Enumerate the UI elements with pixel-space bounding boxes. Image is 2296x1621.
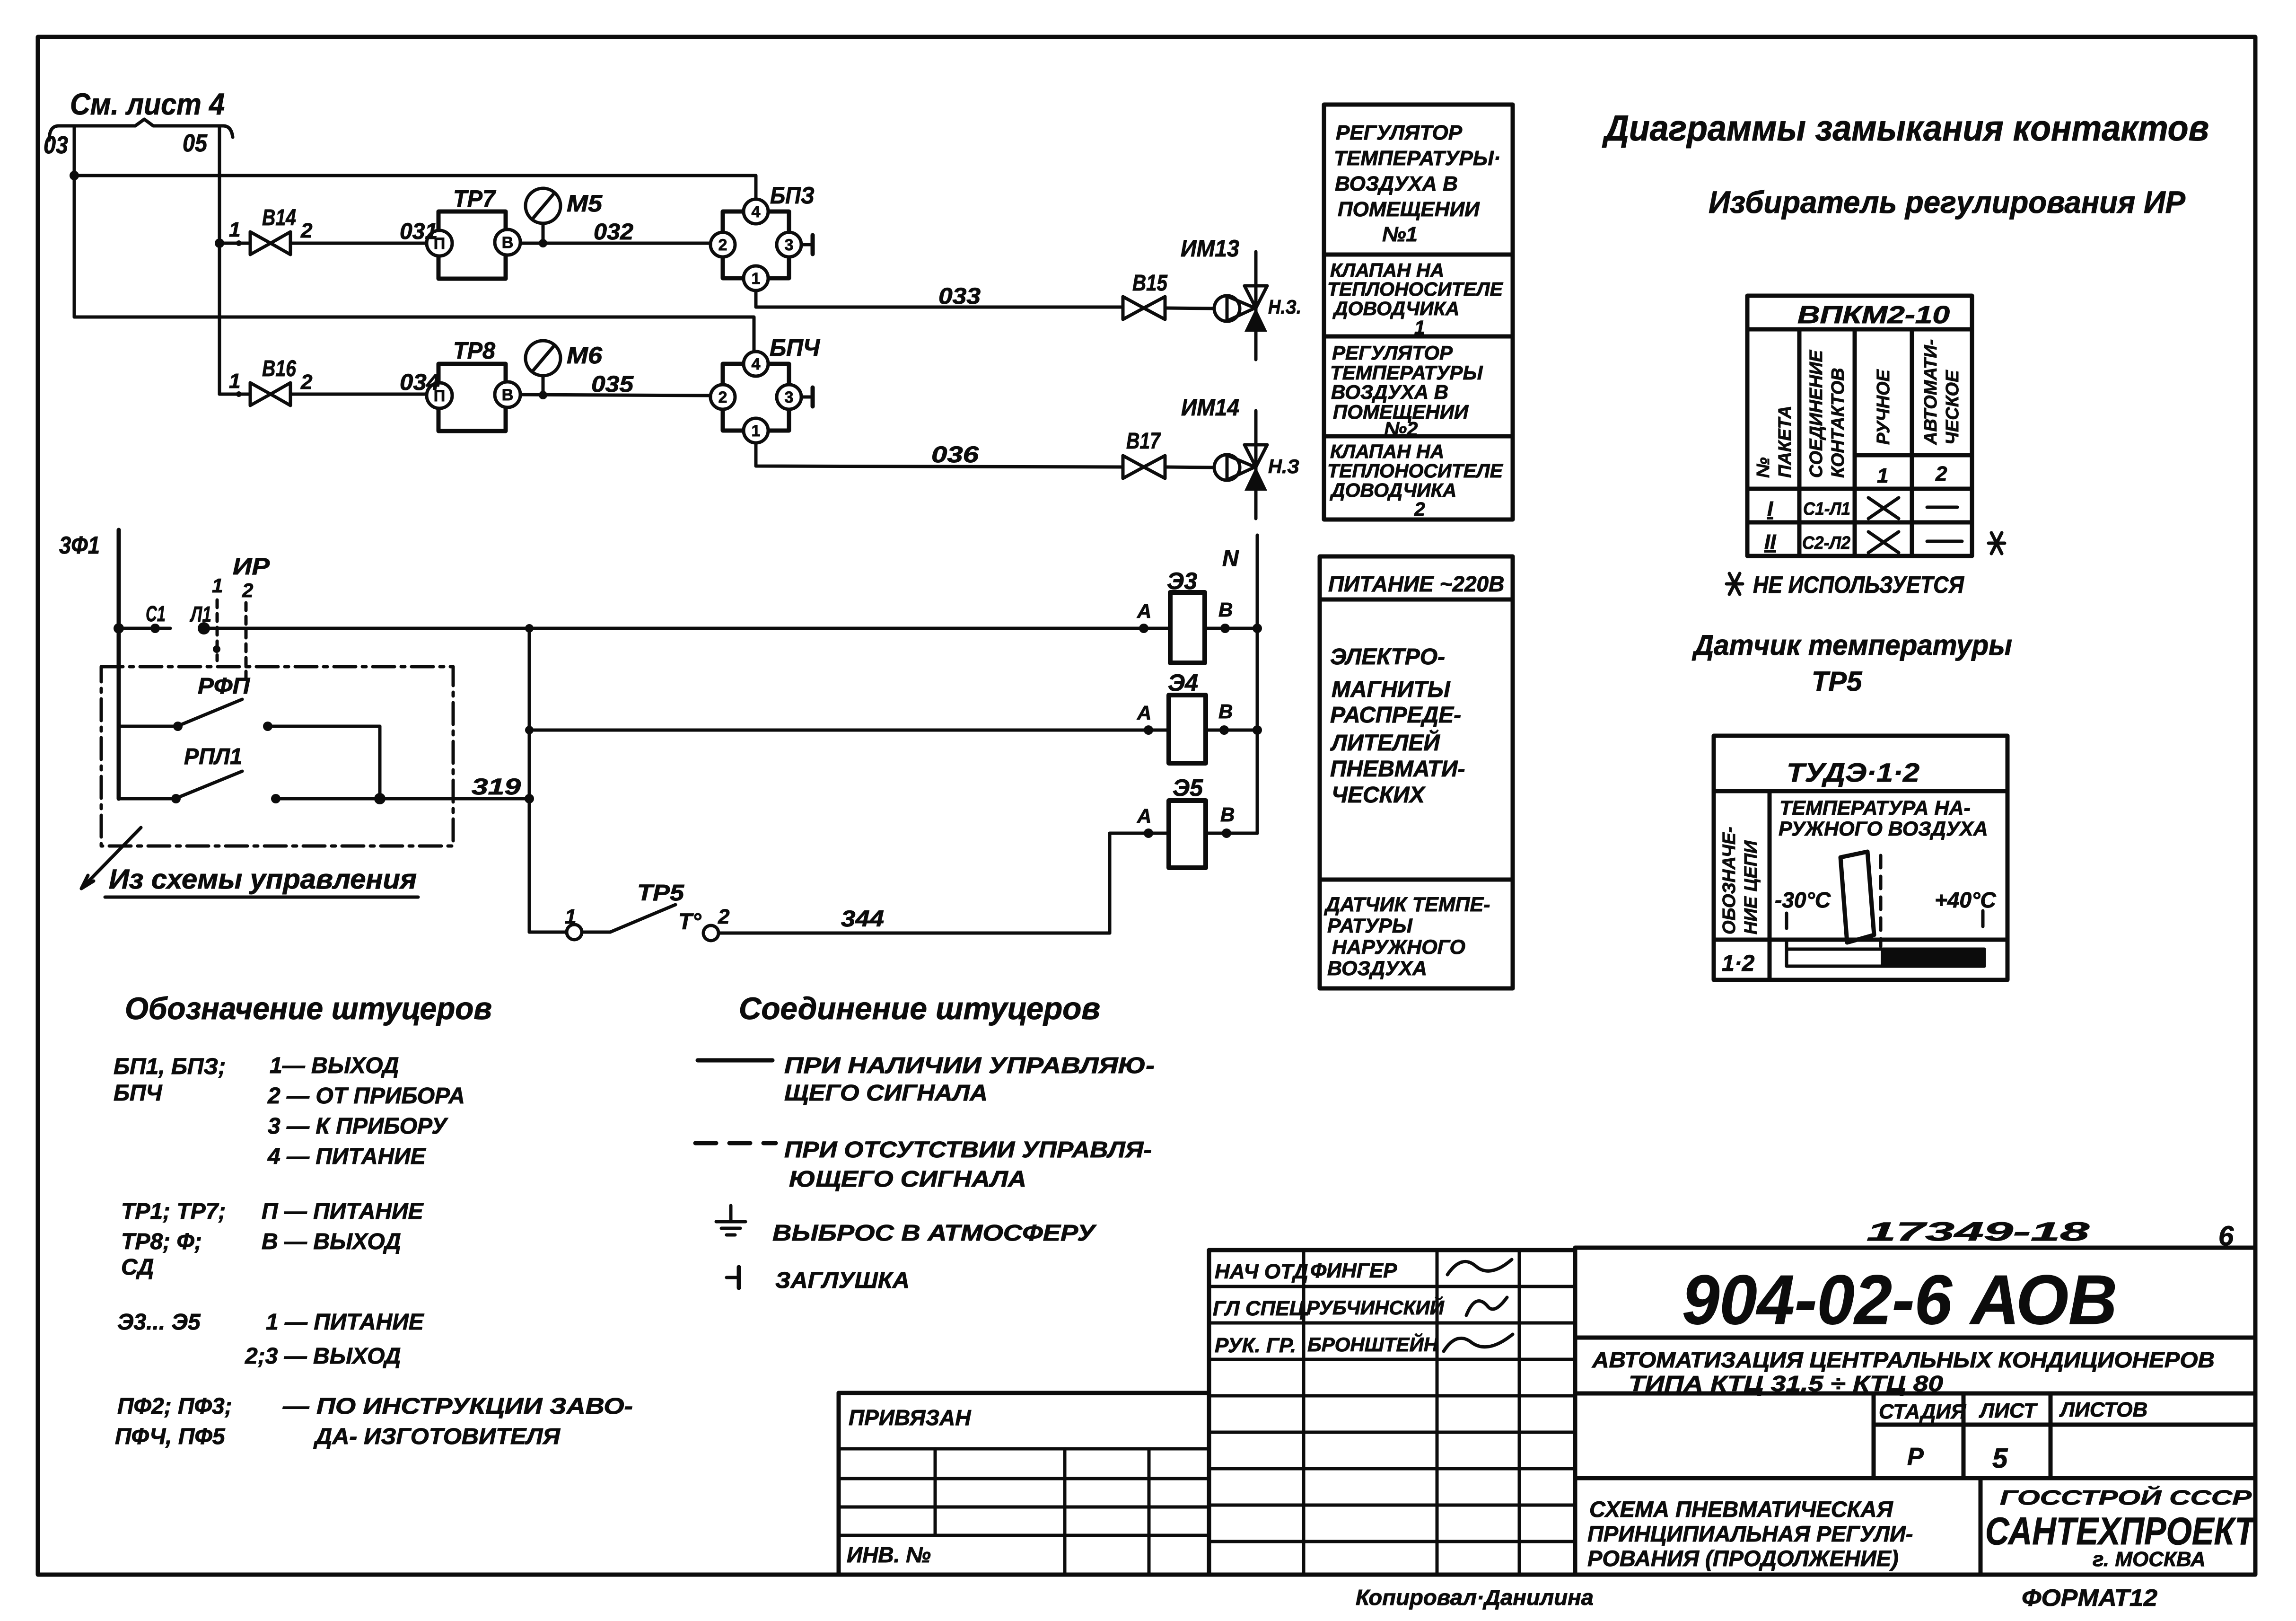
svg-text:ТР8; Ф;: ТР8; Ф; [121, 1229, 202, 1254]
svg-text:МАГНИТЫ: МАГНИТЫ [1332, 677, 1451, 702]
signature rows [1209, 1285, 1575, 1288]
svg-text:РУБЧИНСКИЙ: РУБЧИНСКИЙ [1306, 1295, 1445, 1319]
wire РФП branch down [378, 726, 382, 799]
svg-text:С1: С1 [146, 601, 166, 626]
symbol solid line [698, 1058, 772, 1063]
svg-text:Н.З.: Н.З. [1268, 296, 1301, 318]
BP3 port 2 [710, 232, 735, 257]
terminal A of Э3 [1139, 624, 1148, 633]
svg-text:Избиратель регулирования ИР: Избиратель регулирования ИР [1709, 185, 2186, 220]
svg-text:2: 2 [242, 579, 253, 601]
range bar filled segment [1881, 948, 1984, 968]
svg-text:ПНЕВМАТИ-: ПНЕВМАТИ- [1330, 757, 1465, 782]
terminal A of Э5 [1144, 828, 1153, 838]
leader arrow to box [81, 828, 141, 889]
svg-text:ОБОЗНАЧЕ-: ОБОЗНАЧЕ- [1719, 827, 1739, 934]
wire TP8 to 035 [520, 395, 710, 396]
svg-text:Диаграммы замыкания контакто: Диаграммы замыкания контактов [1602, 108, 2209, 149]
port П of TP7 [427, 230, 452, 256]
gauge M5 [542, 223, 545, 243]
org box [1979, 1478, 1983, 1574]
node junction N/Э4 [1253, 725, 1262, 735]
svg-text:ВПКМ2-10: ВПКМ2-10 [1797, 301, 1950, 329]
svg-text:2: 2 [719, 388, 727, 406]
svg-text:1: 1 [229, 370, 240, 393]
svg-text:А: А [1137, 805, 1151, 827]
port П of TP8 [427, 383, 452, 408]
svg-text:904-02-6 АОВ: 904-02-6 АОВ [1682, 1261, 2117, 1339]
svg-text:В: В [502, 386, 514, 404]
svg-text:ПИТАНИЕ ~220В: ПИТАНИЕ ~220В [1328, 572, 1504, 596]
svg-text:2: 2 [1935, 462, 1947, 485]
wire to ТР5 contact [529, 931, 567, 934]
valve B17 [1123, 456, 1165, 478]
svg-text:319: 319 [472, 775, 521, 800]
svg-text:ИР: ИР [233, 553, 270, 580]
node junction 03 [70, 171, 79, 180]
svg-text:РАТУРЫ: РАТУРЫ [1327, 915, 1413, 937]
row II [1747, 520, 1972, 525]
column lines [1797, 329, 1802, 556]
svg-text:1: 1 [752, 270, 761, 288]
svg-text:ТУДЭ·1·2: ТУДЭ·1·2 [1787, 758, 1919, 787]
symbol dashed line [695, 1141, 776, 1145]
wire 05 to valve B16 [219, 393, 250, 396]
description table upper [1324, 105, 1513, 520]
svg-text:2: 2 [300, 219, 313, 242]
contact C1 dot [150, 624, 160, 633]
svg-text:ИМ14: ИМ14 [1181, 394, 1239, 421]
svg-text:№1: №1 [1382, 223, 1418, 246]
description table lower [1320, 556, 1513, 988]
selector ИР line 1 (dashed) [216, 600, 219, 661]
svg-text:ДА- ИЗГОТОВИТЕЛЯ: ДА- ИЗГОТОВИТЕЛЯ [313, 1424, 561, 1449]
svg-text:СХЕМА ПНЕВМАТИЧЕСКАЯ: СХЕМА ПНЕВМАТИЧЕСКАЯ [1589, 1497, 1893, 1522]
3-way valve IM13 [1254, 252, 1258, 360]
svg-text:БРОНШТЕЙН: БРОНШТЕЙН [1307, 1332, 1439, 1356]
sub row 1 / 2 [1855, 453, 1972, 458]
wire to contact C1 [119, 627, 170, 630]
svg-text:3 — К ПРИБОРУ: 3 — К ПРИБОРУ [268, 1114, 448, 1139]
svg-text:2 — ОТ ПРИБОРА: 2 — ОТ ПРИБОРА [267, 1084, 465, 1109]
svg-text:РФП: РФП [198, 674, 251, 699]
regulator TP7 box [438, 211, 506, 279]
diaphragm parallelogram [1840, 852, 1874, 943]
svg-text:ДОВОДЧИКА: ДОВОДЧИКА [1330, 479, 1456, 501]
svg-text:КЛАПАН НА: КЛАПАН НА [1330, 440, 1444, 462]
svg-text:-30°С: -30°С [1775, 888, 1831, 912]
svg-text:СД: СД [121, 1255, 154, 1280]
node junction bus/Э4 wire [525, 726, 534, 734]
svg-text:А: А [1137, 600, 1151, 622]
svg-text:ТР5: ТР5 [637, 881, 684, 906]
svg-text:I: I [1767, 497, 1773, 520]
svg-text:ВОЗДУХА В: ВОЗДУХА В [1331, 381, 1448, 403]
wire 344 riser to Э5 [1110, 833, 1135, 933]
svg-text:БПЧ: БПЧ [114, 1081, 163, 1106]
svg-text:ПРИНЦИПИАЛЬНАЯ РЕГУЛИ-: ПРИНЦИПИАЛЬНАЯ РЕГУЛИ- [1587, 1521, 1913, 1546]
svg-text:М6: М6 [567, 342, 603, 369]
svg-text:РУК. ГР.: РУК. ГР. [1215, 1334, 1296, 1357]
svg-text:В15: В15 [1132, 271, 1168, 296]
svg-text:ТЕПЛОНОСИТЕЛЕ: ТЕПЛОНОСИТЕЛЕ [1327, 460, 1504, 482]
svg-text:4: 4 [752, 203, 761, 221]
svg-text:РЕГУЛЯТОР: РЕГУЛЯТОР [1332, 342, 1453, 364]
svg-text:ФИНГЕР: ФИНГЕР [1310, 1259, 1397, 1282]
contact Л1 dot [198, 622, 210, 634]
svg-text:1: 1 [565, 905, 576, 928]
node junction N/Э3 [1253, 624, 1262, 633]
svg-text:3: 3 [785, 236, 794, 254]
svg-text:ПФ2; ПФ3;: ПФ2; ПФ3; [117, 1394, 232, 1419]
wire to IM14 [1165, 467, 1215, 467]
relay block BP4 [723, 364, 789, 431]
symbol vent to atmosphere (ground) [729, 1206, 733, 1222]
svg-text:ТР5: ТР5 [1812, 666, 1862, 697]
svg-text:СТАДИЯ: СТАДИЯ [1879, 1400, 1966, 1423]
electromagnet Э3 [1170, 592, 1205, 663]
svg-text:В: В [1218, 599, 1233, 621]
svg-text:Обозначение штуцеров: Обозначение штуцеров [125, 991, 492, 1026]
svg-text:3Ф1: 3Ф1 [59, 532, 100, 559]
svg-text:Э3... Э5: Э3... Э5 [117, 1310, 201, 1335]
terminal A of Э4 [1144, 725, 1153, 735]
svg-text:ФОРМАТ12: ФОРМАТ12 [2022, 1585, 2157, 1611]
svg-text:4: 4 [752, 355, 761, 373]
BP4 port 3 [777, 385, 801, 409]
svg-text:ВОЗДУХА В: ВОЗДУХА В [1335, 172, 1458, 195]
svg-text:БПЗ: БПЗ [770, 182, 815, 209]
port В of TP7 [495, 229, 520, 255]
symbol plug [727, 1276, 739, 1279]
svg-text:РОВАНИЯ (ПРОДОЛЖЕНИЕ): РОВАНИЯ (ПРОДОЛЖЕНИЕ) [1587, 1546, 1899, 1571]
svg-text:ТЕМПЕРАТУРЫ·: ТЕМПЕРАТУРЫ· [1334, 147, 1500, 170]
svg-text:+40°С: +40°С [1935, 888, 1996, 912]
row line [1714, 938, 2007, 942]
svg-text:ИНВ. №: ИНВ. № [847, 1542, 931, 1567]
stamp outer lines [1209, 1248, 1575, 1252]
svg-text:НИЕ ЦЕПИ: НИЕ ЦЕПИ [1741, 840, 1761, 934]
plug at BP4 port3 [801, 396, 813, 399]
svg-text:ТЕМПЕРАТУРЫ: ТЕМПЕРАТУРЫ [1330, 361, 1483, 384]
asterisk mark [1989, 533, 2005, 554]
terminal B of Э3 [1205, 627, 1257, 630]
svg-text:ЧЕСКОЕ: ЧЕСКОЕ [1943, 370, 1963, 445]
port dot 1 of B14 [236, 240, 242, 246]
selector table ВПКМ2-10 [1747, 296, 1972, 556]
SECTION: selector and relay contacts [59, 530, 1170, 941]
svg-text:1— ВЫХОД: 1— ВЫХОД [270, 1053, 399, 1078]
svg-text:САНТЕХПРОЕКТ: САНТЕХПРОЕКТ [1985, 1510, 2257, 1553]
svg-text:ПРИВЯЗАН: ПРИВЯЗАН [849, 1405, 971, 1430]
svg-text:ТЕПЛОНОСИТЕЛЕ: ТЕПЛОНОСИТЕЛЕ [1327, 278, 1504, 300]
svg-text:ПАКЕТА: ПАКЕТА [1775, 405, 1795, 478]
dashed centre line [1879, 855, 1883, 946]
plug at BP3 port3 [801, 243, 813, 247]
svg-text:Копировал·Данилина: Копировал·Данилина [1356, 1585, 1594, 1610]
sensor table ТУДЭ-1-2 [1714, 736, 2007, 980]
привязан box [839, 1391, 1209, 1395]
wire 033 from BP3 port1 [756, 291, 1123, 307]
svg-text:ТР7: ТР7 [453, 185, 496, 212]
electromagnet Э4 [1169, 695, 1206, 763]
ТР5 terminal 1 [567, 925, 582, 940]
svg-text:В — ВЫХОД: В — ВЫХОД [262, 1229, 401, 1254]
svg-text:РАСПРЕДЕ-: РАСПРЕДЕ- [1330, 703, 1461, 728]
svg-text:2;3 — ВЫХОД: 2;3 — ВЫХОД [245, 1344, 401, 1369]
wire 05 to valve B14 [219, 242, 250, 245]
BP4 port 2 [710, 385, 735, 409]
svg-text:ДОВОДЧИКА: ДОВОДЧИКА [1332, 298, 1459, 319]
valve B14 [250, 232, 290, 255]
svg-text:ЮЩЕГО СИГНАЛА: ЮЩЕГО СИГНАЛА [789, 1167, 1026, 1192]
svg-text:ТЕМПЕРАТУРА НА-: ТЕМПЕРАТУРА НА- [1779, 797, 1971, 819]
SECTION: description tables [1320, 105, 1513, 988]
valve B15 [1123, 297, 1165, 319]
svg-text:Э3: Э3 [1167, 568, 1197, 594]
svg-text:2: 2 [300, 370, 313, 394]
svg-text:ТР1; ТР7;: ТР1; ТР7; [121, 1199, 226, 1224]
svg-text:ЧЕСКИХ: ЧЕСКИХ [1332, 783, 1426, 808]
svg-text:033: 033 [938, 284, 981, 309]
svg-text:Э4: Э4 [1168, 670, 1198, 696]
SECTION: legends [114, 991, 1155, 1449]
svg-text:А: А [1137, 702, 1151, 724]
svg-text:ВОЗДУХА: ВОЗДУХА [1327, 957, 1427, 980]
svg-text:АВТОМАТИ-: АВТОМАТИ- [1921, 339, 1941, 445]
actuator IM13 [1214, 296, 1240, 321]
wire A stub [1135, 832, 1169, 835]
terminal B of Э5 [1206, 832, 1257, 835]
range bar outline [1787, 949, 1984, 966]
wire vertical left bus [117, 530, 121, 799]
svg-text:2: 2 [1414, 498, 1425, 520]
ТР5 switch blade [582, 931, 610, 934]
svg-text:17349-18: 17349-18 [1867, 1216, 2090, 1246]
svg-text:НАРУЖНОГО: НАРУЖНОГО [1332, 936, 1465, 959]
BP4 port 1 [744, 418, 768, 443]
regulator TP8 box [438, 364, 506, 431]
svg-text:ЗАГЛУШКА: ЗАГЛУШКА [775, 1268, 910, 1293]
svg-text:В14: В14 [262, 205, 296, 230]
contact РПЛ1 row [119, 797, 176, 801]
port dot 1 of B16 [236, 391, 242, 397]
svg-text:1·2: 1·2 [1722, 951, 1755, 976]
svg-text:В17: В17 [1126, 429, 1161, 454]
wire 03 feed to BP4 port4 [74, 317, 754, 352]
svg-text:БПЧ: БПЧ [770, 335, 821, 361]
svg-text:Т°: Т° [678, 909, 701, 934]
wire 03 feed to BP3 port4 [74, 176, 756, 199]
svg-text:ЛИСТ: ЛИСТ [1979, 1399, 2038, 1422]
SECTION: title block [839, 1216, 2257, 1611]
svg-text:— ПО ИНСТРУКЦИИ ЗАВО-: — ПО ИНСТРУКЦИИ ЗАВО- [282, 1394, 633, 1419]
relay block BP3 [723, 211, 789, 278]
port В of TP8 [495, 382, 520, 407]
wire Л1 to Э3 [204, 627, 1170, 630]
BP3 port 3 [777, 232, 801, 257]
svg-text:ПРИ ОТСУТСТВИИ УПРАВЛЯ-: ПРИ ОТСУТСТВИИ УПРАВЛЯ- [784, 1137, 1152, 1163]
3-way valve IM14 [1254, 411, 1258, 519]
svg-text:3: 3 [785, 388, 794, 406]
wire 031 [290, 242, 427, 245]
svg-text:ПОМЕЩЕНИИ: ПОМЕЩЕНИИ [1338, 198, 1480, 221]
wire 319 [276, 797, 529, 801]
ТР5 terminal 2 [703, 925, 719, 941]
svg-text:Л1: Л1 [190, 602, 211, 626]
svg-text:2: 2 [718, 905, 730, 928]
SECTION: row2 pneumatic chain [219, 335, 1299, 519]
gauge M6 [542, 376, 545, 395]
wire TP7 to 032 [520, 242, 710, 245]
SECTION: TUDE table [1714, 736, 2007, 980]
wire net 05 vertical [218, 126, 221, 394]
valve B16 [250, 383, 290, 405]
electromagnet Э5 [1169, 801, 1206, 868]
node junction bus top [525, 624, 534, 633]
svg-text:5: 5 [1992, 1443, 2008, 1474]
svg-text:г. МОСКВА: г. МОСКВА [2093, 1548, 2206, 1571]
svg-text:ЩЕГО СИГНАЛА: ЩЕГО СИГНАЛА [784, 1081, 988, 1106]
row I [1747, 487, 1972, 491]
svg-text:ПФЧ, ПФ5: ПФЧ, ПФ5 [115, 1424, 226, 1449]
svg-text:М5: М5 [567, 190, 603, 217]
svg-text:Из схемы управления: Из схемы управления [109, 864, 417, 895]
svg-text:05: 05 [183, 130, 208, 157]
signature scribbles [1447, 1260, 1512, 1275]
wire to IM13 [1165, 308, 1215, 308]
svg-text:036: 036 [931, 442, 979, 467]
SECTION: row1 pneumatic chain [219, 182, 1301, 360]
svg-text:В: В [1220, 803, 1235, 826]
svg-text:1: 1 [1877, 464, 1888, 487]
node junction 05 row1 [215, 238, 224, 248]
svg-text:1: 1 [212, 574, 223, 597]
svg-text:С2-Л2: С2-Л2 [1802, 533, 1850, 553]
svg-text:См. лист 4: См. лист 4 [70, 87, 225, 121]
BP4 port 4 [744, 352, 768, 376]
wire 344 [719, 932, 1110, 935]
svg-text:1: 1 [1414, 317, 1425, 338]
svg-text:ГЛ СПЕЦ.: ГЛ СПЕЦ. [1213, 1297, 1310, 1320]
BP3 port 1 [744, 266, 768, 291]
svg-text:Н.З: Н.З [1268, 455, 1299, 477]
svg-text:ЭЛЕКТРО-: ЭЛЕКТРО- [1330, 644, 1445, 670]
svg-text:ВЫБРОС В АТМОСФЕРУ: ВЫБРОС В АТМОСФЕРУ [772, 1221, 1097, 1246]
svg-text:ГОССТРОЙ СССР: ГОССТРОЙ СССР [2000, 1485, 2252, 1509]
svg-text:1 — ПИТАНИЕ: 1 — ПИТАНИЕ [266, 1310, 425, 1335]
selector ИР line 2 (dashed) [245, 603, 248, 682]
wire 036 from BP4 port1 [756, 443, 1123, 467]
svg-text:Соединение штуцеров: Соединение штуцеров [739, 991, 1100, 1026]
svg-text:№: № [1753, 457, 1773, 478]
svg-text:РУЖНОГО ВОЗДУХА: РУЖНОГО ВОЗДУХА [1779, 818, 1988, 840]
svg-text:1: 1 [752, 422, 761, 440]
svg-text:В16: В16 [262, 356, 296, 381]
node junction left bus / C1 wire [114, 623, 124, 634]
SECTION: top-left source lines [44, 87, 756, 394]
svg-text:031: 031 [400, 219, 438, 244]
BP3 port 4 [744, 199, 768, 224]
dash-dot enclosure box [101, 667, 453, 846]
svg-text:035: 035 [591, 372, 634, 397]
svg-text:344: 344 [841, 907, 884, 932]
svg-text:1: 1 [229, 218, 240, 241]
svg-text:032: 032 [594, 220, 633, 245]
contact РФП row [119, 725, 178, 728]
svg-text:В: В [502, 234, 514, 252]
bus N vertical [1256, 535, 1259, 833]
svg-text:Р: Р [1907, 1443, 1924, 1471]
svg-text:ПРИ НАЛИЧИИ УПРАВЛЯЮ-: ПРИ НАЛИЧИИ УПРАВЛЯЮ- [784, 1053, 1155, 1078]
svg-text:II: II [1764, 530, 1776, 554]
signatures column lines [1302, 1250, 1306, 1574]
svg-text:РУЧНОЕ: РУЧНОЕ [1874, 369, 1893, 445]
svg-text:ЛИСТОВ: ЛИСТОВ [2059, 1398, 2147, 1421]
stage table [1872, 1393, 1876, 1478]
wire net 03 vertical [73, 126, 76, 317]
svg-text:Э5: Э5 [1173, 775, 1203, 801]
wire right bus vertical [528, 628, 531, 932]
svg-text:СОЕДИНЕНИЕ: СОЕДИНЕНИЕ [1806, 349, 1826, 478]
svg-text:03: 03 [44, 132, 68, 159]
svg-text:ИМ13: ИМ13 [1181, 235, 1239, 262]
svg-text:№2: №2 [1384, 418, 1418, 440]
svg-text:Датчик температуры: Датчик температуры [1691, 629, 2012, 661]
svg-text:4 — ПИТАНИЕ: 4 — ПИТАНИЕ [267, 1144, 427, 1169]
svg-text:КОНТАКТОВ: КОНТАКТОВ [1828, 368, 1848, 478]
svg-text:РПЛ1: РПЛ1 [184, 744, 242, 769]
svg-text:РЕГУЛЯТОР: РЕГУЛЯТОР [1336, 121, 1463, 144]
svg-text:АВТОМАТИЗАЦИЯ ЦЕНТРАЛЬНЫХ КО: АВТОМАТИЗАЦИЯ ЦЕНТРАЛЬНЫХ КОНДИЦИОНЕРОВ [1592, 1348, 2215, 1372]
tick on bar left [1785, 940, 1788, 949]
svg-text:2: 2 [719, 236, 727, 254]
svg-text:N: N [1222, 546, 1239, 571]
wire 034 [290, 393, 427, 396]
svg-text:С1-Л1: С1-Л1 [1803, 499, 1850, 519]
svg-text:НАЧ ОТД: НАЧ ОТД [1215, 1260, 1308, 1283]
terminal B of Э4 [1206, 729, 1257, 732]
SECTION: right headings and contact table [1602, 108, 2209, 697]
svg-text:БП1, БПЗ;: БП1, БПЗ; [114, 1054, 226, 1079]
svg-text:034: 034 [400, 370, 440, 395]
brace under note [49, 119, 233, 140]
left column line [1768, 791, 1772, 980]
svg-text:П — ПИТАНИЕ: П — ПИТАНИЕ [262, 1199, 424, 1224]
node junction at right bus [525, 794, 534, 803]
svg-text:ТР8: ТР8 [453, 337, 495, 364]
svg-text:ЛИТЕЛЕЙ: ЛИТЕЛЕЙ [1330, 730, 1440, 756]
svg-text:НЕ ИСПОЛЬЗУЕТСЯ: НЕ ИСПОЛЬЗУЕТСЯ [1753, 572, 1964, 598]
actuator IM14 [1214, 455, 1240, 480]
SECTION: electromagnets [1135, 535, 1262, 868]
svg-text:ДАТЧИК ТЕМПЕ-: ДАТЧИК ТЕМПЕ- [1323, 893, 1490, 916]
note не используется [1726, 573, 1743, 594]
wire Э4 row [529, 729, 1169, 732]
svg-text:В: В [1218, 700, 1233, 722]
